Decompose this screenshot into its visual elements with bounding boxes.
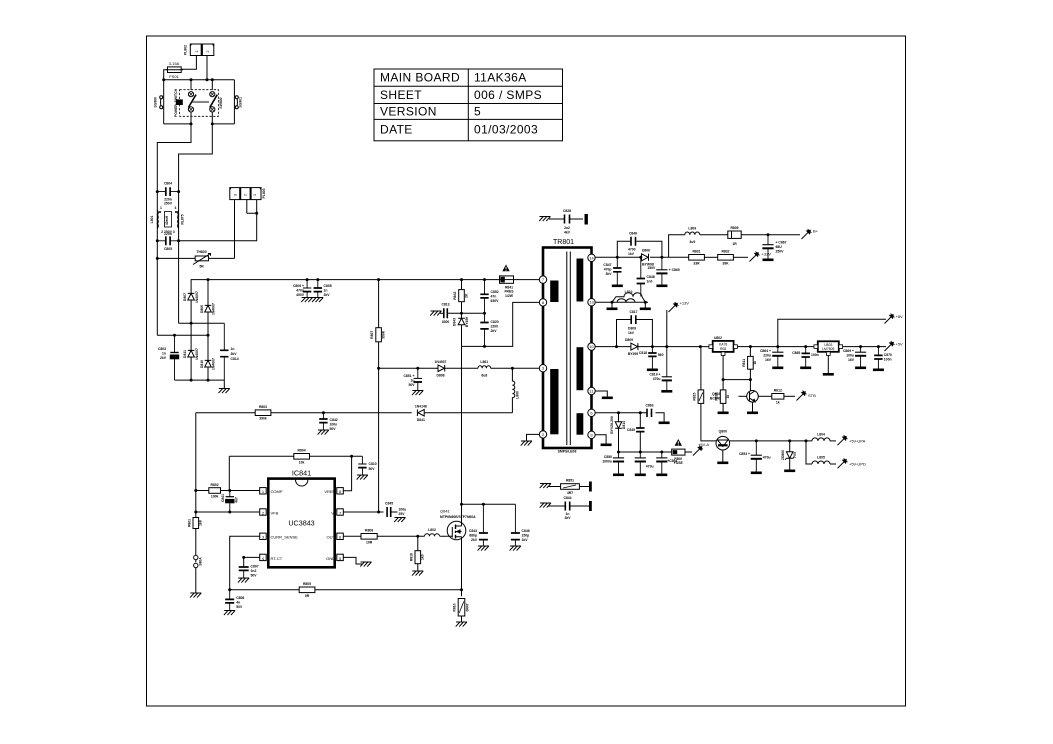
wire switch pole feeds — [191, 80, 212, 90]
diode D811 1N4007 — [188, 350, 195, 357]
svg-text:470u: 470u — [653, 377, 661, 381]
svg-text:250V: 250V — [776, 250, 785, 254]
ground (bar) C847 — [612, 285, 623, 288]
svg-text:FUSE: FUSE — [674, 461, 684, 465]
svg-text:390k: 390k — [259, 417, 267, 421]
svg-text:1: 1 — [160, 206, 162, 210]
wire bottom rail right — [212, 123, 234, 125]
svg-text:4: 4 — [175, 206, 177, 210]
wire pin7 VI node — [344, 511, 384, 513]
switch SW800 dashed body — [180, 90, 219, 117]
capacitor C804 — [157, 187, 178, 196]
svg-text:100n: 100n — [884, 358, 892, 362]
ground (bar) L810 left — [611, 302, 613, 307]
svg-text:4R7: 4R7 — [567, 491, 573, 495]
svg-text:L804: L804 — [817, 433, 825, 437]
svg-text:U802: U802 — [714, 336, 722, 340]
svg-text:+8V: +8V — [896, 314, 904, 319]
svg-text:4n7: 4n7 — [235, 497, 239, 503]
wire bridge column2 — [207, 280, 209, 381]
capacitor C843 — [479, 504, 488, 546]
svg-text:2kV: 2kV — [471, 538, 478, 542]
drawing frame border — [147, 36, 906, 706]
wire R804 rail — [229, 455, 362, 457]
ground (bar) C869 — [855, 367, 866, 370]
ground (bar) Q800 — [717, 462, 728, 465]
svg-text:14: 14 — [589, 255, 594, 260]
ground (hot) pin2 — [521, 441, 532, 446]
svg-text:+33V: +33V — [762, 252, 772, 257]
resistor R831 — [669, 256, 689, 258]
svg-text:+13V: +13V — [680, 301, 690, 306]
resistor R832 — [704, 256, 717, 258]
wire switch bottom terminals — [191, 112, 212, 124]
IC841 pin 5 GND — [337, 554, 344, 560]
wire to filter line N — [179, 124, 213, 176]
svg-text:Q800: Q800 — [719, 430, 727, 434]
svg-text:2kV: 2kV — [491, 329, 498, 333]
ground (hot) C810 — [357, 475, 368, 480]
wire AC1 corner to bridge — [157, 334, 208, 336]
svg-text:BY299: BY299 — [628, 352, 638, 356]
svg-text:2kV: 2kV — [324, 293, 331, 297]
diode D810 1N4007 — [205, 360, 212, 367]
svg-text:39K: 39K — [722, 261, 729, 265]
transistor Q841 MOSFET — [447, 521, 466, 540]
arrow +5V-A — [693, 446, 703, 456]
wire drain up — [461, 346, 463, 521]
svg-text:25V: 25V — [399, 512, 406, 516]
wire PL803 pin1 vertical — [256, 200, 258, 214]
svg-text:KA78: KA78 — [719, 343, 727, 347]
svg-text:16V: 16V — [848, 358, 855, 362]
inductor L802 — [425, 534, 440, 537]
svg-text:C870: C870 — [884, 353, 892, 357]
resistor R812 — [758, 395, 772, 397]
wire pin9 to ground — [595, 435, 606, 444]
wire pin10 rail — [595, 346, 886, 348]
svg-text:D814: D814 — [622, 421, 626, 429]
wire drain snubber branch — [462, 503, 516, 505]
svg-text:2n2: 2n2 — [564, 226, 570, 230]
svg-text:L801: L801 — [150, 216, 154, 224]
wire aux rail y=412.7 — [196, 413, 513, 491]
fuse FS01 — [166, 67, 183, 73]
capacitor C817 bypass loop — [617, 320, 653, 347]
svg-text:C808: C808 — [324, 284, 332, 288]
svg-text:SHEET: SHEET — [380, 88, 422, 102]
resistor R804 — [294, 454, 310, 460]
wire to filter line L — [157, 124, 191, 176]
wire VREF riser — [344, 456, 352, 491]
svg-text:220n: 220n — [164, 232, 172, 236]
svg-text:R805: R805 — [303, 582, 311, 586]
svg-text:1k: 1k — [776, 400, 780, 404]
ground (hot) C846 — [510, 546, 521, 551]
svg-text:470p: 470p — [604, 268, 612, 272]
wire Q800 emitter down — [722, 450, 724, 462]
svg-text:C805: C805 — [164, 247, 172, 251]
svg-text:400V: 400V — [296, 293, 305, 297]
svg-text:L861: L861 — [480, 360, 488, 364]
switch link — [193, 101, 210, 102]
resistor R811 — [749, 347, 751, 357]
ground (hot) C851 — [412, 391, 423, 396]
svg-text:1kV: 1kV — [628, 331, 635, 335]
svg-text:VFB: VFB — [271, 510, 279, 515]
capacitor C845 — [387, 507, 397, 517]
ground (bar) C850 — [613, 474, 624, 477]
svg-text:2n2: 2n2 — [251, 569, 257, 573]
capacitor C851s electrolytic — [635, 452, 646, 474]
svg-text:1R: 1R — [732, 242, 737, 246]
svg-text:BYV28-200: BYV28-200 — [610, 416, 614, 434]
thermistor TH800 — [157, 254, 234, 265]
svg-text:SG801: SG801 — [239, 97, 243, 108]
inductor L805 — [806, 441, 812, 464]
ground (bar) C870 — [873, 369, 884, 372]
wire OUT line — [344, 535, 448, 537]
svg-text:3kV: 3kV — [605, 272, 612, 276]
svg-text:1n0: 1n0 — [647, 280, 653, 284]
svg-text:LM7805: LM7805 — [822, 347, 834, 351]
wire bottom rail left — [164, 123, 191, 125]
capacitor C867 electrolytic — [762, 235, 773, 259]
svg-text:B+: B+ — [813, 229, 819, 234]
fuse F800 — [672, 449, 685, 455]
svg-text:L805: L805 — [817, 456, 825, 460]
svg-text:11AK36A: 11AK36A — [474, 71, 527, 85]
IC841 pin 3 CURR_SENSE — [260, 533, 267, 539]
diode D843 BY459 — [461, 313, 463, 318]
jumper S80A — [195, 529, 197, 594]
transformer TR801 core shield cap C828 — [549, 218, 583, 220]
ground (bar) C854 — [656, 474, 667, 477]
capacitor C813 — [440, 308, 447, 318]
junction snubber top — [460, 278, 463, 281]
svg-text:33R: 33R — [693, 261, 700, 265]
wire COMP rail — [196, 490, 260, 492]
capacitor C870 — [874, 347, 882, 369]
svg-text:C841: C841 — [221, 494, 225, 502]
svg-text:STB: STB — [808, 393, 816, 398]
resistor R814 — [722, 380, 724, 390]
svg-text:GND: GND — [326, 556, 335, 561]
svg-text:D807: D807 — [183, 293, 187, 301]
diode D841 1N4148 — [417, 409, 424, 416]
wire pin4 to C807 — [244, 557, 260, 567]
capacitor C847 — [613, 257, 621, 284]
svg-text:1n: 1n — [231, 347, 235, 351]
spark gap SG801 — [235, 96, 238, 109]
wire left loop down — [163, 80, 165, 124]
capacitor C849 — [639, 413, 641, 428]
svg-text:68U: 68U — [776, 245, 783, 249]
svg-text:C820: C820 — [491, 320, 499, 324]
wire Q800 base feed — [701, 403, 716, 441]
svg-text:3kV: 3kV — [231, 352, 238, 356]
capacitor C846s bypass loop — [617, 241, 662, 257]
arrow +8V — [885, 314, 895, 324]
svg-text:MTP6N60E/STP7N60A: MTP6N60E/STP7N60A — [440, 515, 476, 519]
pin 14 — [588, 254, 595, 261]
svg-text:PL802: PL802 — [184, 45, 188, 55]
svg-text:220u: 220u — [763, 354, 771, 358]
arrow +13V — [666, 310, 668, 347]
svg-text:C806 +: C806 + — [293, 284, 304, 288]
svg-text:R803: R803 — [259, 405, 267, 409]
svg-text:50V: 50V — [251, 574, 258, 578]
inductor L810 bead — [612, 293, 645, 303]
inductor L804 — [806, 440, 812, 442]
wire PL803 pin3 down — [234, 200, 236, 259]
svg-text:FS01: FS01 — [169, 74, 179, 79]
capacitor C819 electrolytic — [662, 347, 672, 390]
svg-text:R809: R809 — [730, 226, 738, 230]
svg-text:D810: D810 — [200, 360, 204, 368]
wire PL802 pin2 down — [206, 56, 208, 80]
svg-text:4n: 4n — [236, 601, 240, 605]
svg-text:250V: 250V — [164, 202, 173, 206]
capacitor C869 electrolytic — [855, 347, 866, 367]
spark gap SG800 — [160, 96, 163, 109]
svg-text:100u: 100u — [846, 354, 854, 358]
transformer secondary winding 10-11 — [577, 347, 584, 390]
capacitor C806 electrolytic — [303, 280, 311, 298]
junctions bridge — [207, 278, 210, 281]
svg-text:L810: L810 — [625, 290, 633, 294]
capacitor C814 — [220, 323, 228, 380]
svg-text:1kV: 1kV — [522, 538, 529, 542]
svg-text:BC640: BC640 — [710, 396, 721, 400]
resistor R808 — [361, 534, 377, 540]
wire pin2 aux to ground — [527, 434, 540, 441]
svg-text:R08: R08 — [720, 347, 726, 351]
capacitor C810 — [358, 456, 366, 475]
title block text — [380, 71, 542, 137]
ground (bar) pin11 — [602, 397, 613, 400]
ground (bar) L810 right — [644, 302, 646, 307]
svg-text:C847: C847 — [603, 263, 611, 267]
ground (hot) shield — [539, 217, 550, 222]
capacitor C805 — [157, 236, 178, 245]
svg-text:R831: R831 — [692, 250, 700, 254]
resistor R805 — [299, 587, 315, 593]
wire DC rail to R807 — [378, 280, 380, 328]
ground (bar) C867 — [763, 259, 774, 262]
svg-text:680p: 680p — [469, 534, 477, 538]
svg-text:1k: 1k — [753, 361, 757, 365]
svg-text:50V: 50V — [408, 383, 415, 387]
svg-text:C828: C828 — [563, 209, 571, 213]
svg-text:1k0: 1k0 — [421, 554, 425, 560]
capacitor C864 electrolytic — [772, 347, 783, 367]
wire VI riser — [378, 368, 380, 512]
line filter L801 — [157, 211, 178, 229]
IC841 box — [268, 479, 334, 568]
capacitor C860 electrolytic — [656, 257, 667, 284]
resistor R810 fusible — [461, 590, 463, 597]
warning triangle R841 — [502, 265, 509, 272]
switch button — [176, 99, 183, 105]
svg-text:150p: 150p — [522, 534, 530, 538]
pin 9 — [588, 431, 595, 438]
svg-text:7V5: 7V5 — [793, 452, 797, 458]
ground (bar) C851s — [635, 474, 646, 477]
ground (hot) pin5 — [360, 562, 371, 567]
IC841 pin 2 VFB — [260, 509, 267, 515]
capacitor C806b — [225, 590, 234, 611]
svg-text:TH800: TH800 — [196, 250, 206, 254]
svg-text:13: 13 — [589, 300, 594, 305]
svg-text:R811: R811 — [742, 359, 746, 367]
svg-text:50V: 50V — [369, 467, 376, 471]
svg-text:C846: C846 — [522, 529, 530, 533]
wire bridge column1 lower — [190, 323, 192, 380]
diode D807 1N4007 — [188, 293, 195, 300]
ground (hot) C806 — [301, 298, 312, 303]
capacitor C854 electrolytic — [656, 452, 667, 474]
svg-text:R808: R808 — [365, 529, 373, 533]
shield stub R851 row — [540, 484, 551, 489]
svg-text:+5V-A: +5V-A — [698, 442, 709, 447]
svg-text:D806: D806 — [200, 305, 204, 313]
connector PL803 — [230, 188, 261, 200]
inductor L809 — [685, 232, 700, 235]
svg-text:2kV: 2kV — [160, 356, 167, 360]
wire AC2 corner to bridge — [179, 322, 225, 324]
svg-text:R832: R832 — [721, 250, 729, 254]
wire +8V riser — [778, 319, 886, 346]
resistor R803 — [255, 410, 271, 416]
resistor R842 — [461, 280, 463, 290]
svg-text:C813: C813 — [441, 303, 449, 307]
svg-text:C845: C845 — [385, 502, 393, 506]
svg-text:10: 10 — [589, 344, 594, 349]
ground (hot) left column — [190, 593, 201, 598]
resistor R841 fusible — [500, 279, 514, 281]
svg-text:1N4007: 1N4007 — [195, 291, 199, 303]
capacitor C841 comp — [226, 491, 234, 513]
arrow B+ — [802, 229, 812, 239]
svg-text:1k8: 1k8 — [199, 520, 203, 526]
wire fuse left lead — [164, 70, 168, 80]
wire B+ riser — [669, 235, 800, 258]
svg-text:16V: 16V — [765, 358, 772, 362]
svg-text:100n: 100n — [330, 423, 338, 427]
wire bridge top rail — [191, 280, 500, 324]
svg-text:SMPS/LE08: SMPS/LE08 — [558, 450, 577, 454]
svg-text:150V: 150V — [647, 266, 656, 270]
svg-text:3300: 3300 — [442, 320, 450, 324]
svg-text:IC841: IC841 — [292, 469, 311, 478]
svg-text:3-15A: 3-15A — [169, 61, 180, 66]
capacitor C807 — [239, 567, 249, 578]
svg-text:1u: 1u — [411, 379, 415, 383]
svg-text:UC3843: UC3843 — [288, 519, 314, 528]
svg-text:100u: 100u — [399, 508, 407, 512]
ground (hot) C843 — [478, 546, 489, 551]
svg-text:1kV: 1kV — [628, 252, 635, 256]
wire Q803 emitter to ground — [752, 402, 754, 411]
svg-text:630V: 630V — [491, 299, 500, 303]
svg-text:470u: 470u — [763, 456, 771, 460]
svg-text:R804: R804 — [298, 449, 306, 453]
capacitor C850 electrolytic — [613, 452, 624, 474]
svg-text:RT-CT: RT-CT — [271, 556, 283, 561]
svg-text:3kV: 3kV — [564, 516, 571, 520]
zener ZD800 — [789, 441, 791, 452]
svg-text:470u: 470u — [296, 289, 304, 293]
pin 7 — [539, 276, 546, 283]
svg-text:L802: L802 — [428, 528, 436, 532]
svg-text:C850: C850 — [604, 455, 612, 459]
svg-text:SG800: SG800 — [154, 97, 158, 108]
svg-text:C851 +: C851 + — [403, 374, 414, 378]
wire top node rail — [164, 79, 235, 81]
regulator U803 LM7805 — [818, 341, 839, 352]
wire U803 gnd — [827, 355, 829, 373]
ground (hot) R810 — [456, 622, 467, 627]
svg-text:390K: 390K — [381, 330, 385, 339]
resistor R801 — [193, 518, 199, 529]
svg-text:1000u: 1000u — [602, 460, 612, 464]
svg-text:TR801: TR801 — [553, 239, 574, 246]
capacitor C846 — [511, 504, 520, 546]
wire pin6 line — [595, 413, 664, 422]
svg-text:R842: R842 — [453, 292, 457, 300]
capacitor C818 — [648, 347, 656, 369]
svg-text:C843: C843 — [469, 529, 477, 533]
svg-text:Q841: Q841 — [440, 509, 451, 514]
svg-text:SW800: SW800 — [219, 97, 223, 108]
svg-text:10k: 10k — [299, 460, 305, 464]
ground (hot) R816 — [412, 571, 423, 576]
wire pin5 GND — [344, 557, 363, 564]
pin 2 — [539, 431, 546, 438]
svg-text:01/03/2003: 01/03/2003 — [474, 123, 538, 137]
svg-text:+5V: +5V — [896, 342, 904, 347]
wire sense line — [230, 589, 462, 591]
wire pin13 line — [595, 301, 648, 303]
svg-text:R816: R816 — [409, 553, 413, 561]
svg-text:+5V-UPA: +5V-UPA — [849, 438, 866, 443]
wire R807 to startup node — [378, 342, 380, 368]
capacitor C852 — [480, 280, 488, 314]
wire C805 node to PL803 pin1 — [179, 200, 257, 241]
pin 10 — [588, 343, 595, 350]
svg-text:C818: C818 — [639, 351, 647, 355]
capacitor C842 — [319, 413, 327, 430]
svg-text:L809: L809 — [688, 226, 696, 230]
svg-text:1N4007: 1N4007 — [195, 348, 199, 360]
arrow +33V — [733, 256, 748, 258]
svg-text:VERSION: VERSION — [380, 105, 437, 119]
wire U802 gnd pin — [723, 356, 750, 380]
resistor R815 — [700, 347, 702, 390]
svg-text:1N4937: 1N4937 — [435, 360, 447, 364]
ground (bar) C818 — [647, 369, 658, 372]
ground (bar) Q803 — [747, 412, 758, 415]
IC841 pin 8 VREF — [337, 488, 344, 494]
svg-text:C810: C810 — [369, 462, 377, 466]
inductor L861 — [478, 366, 491, 368]
svg-text:DATE: DATE — [380, 123, 413, 137]
IC841 pin 4 RT-CT — [260, 554, 267, 560]
svg-text:MAIN BOARD: MAIN BOARD — [380, 71, 460, 85]
svg-text:50V: 50V — [330, 427, 337, 431]
connector PL802 — [190, 44, 214, 56]
